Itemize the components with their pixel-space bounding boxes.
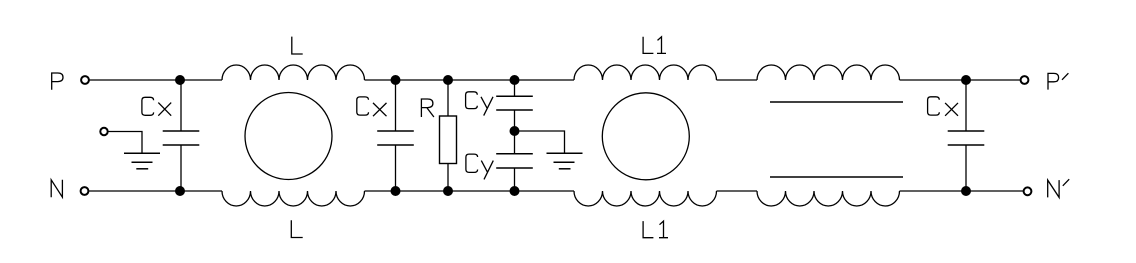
wire node B to L: [180, 190, 222, 192]
resistor R: [440, 80, 457, 191]
label Nprime: [1048, 179, 1070, 197]
choke L2 core bar bottom: [770, 176, 903, 178]
wire node H to L1: [515, 190, 575, 192]
ground right: [547, 153, 583, 169]
junction node A: [175, 75, 185, 85]
junction node E: [443, 75, 453, 85]
label R: [421, 99, 434, 117]
capacitor Cx1: [163, 80, 200, 191]
terminal N: [81, 187, 89, 195]
capacitor Cy1: [496, 80, 533, 131]
inductor L top winding: [222, 65, 365, 80]
wire L2 to node J: [900, 79, 967, 81]
wire L1 to L2 bottom: [717, 190, 758, 192]
terminal E ground: [100, 128, 107, 135]
wire node A to L: [180, 79, 222, 81]
ground left: [124, 153, 160, 169]
junction node F: [443, 186, 453, 196]
label Cx2: [357, 97, 387, 116]
inductor L1 bottom winding: [574, 191, 717, 206]
choke L core circle: [245, 93, 332, 180]
wire P to node A: [89, 79, 180, 81]
junction node M: [510, 126, 520, 136]
label L top: [292, 37, 303, 54]
wire node M to ground: [515, 131, 565, 153]
junction node G: [510, 75, 520, 85]
terminal Pprime: [1021, 76, 1029, 84]
inductor L bottom winding: [222, 191, 365, 206]
label Cy2: [466, 154, 493, 179]
junction node K: [961, 186, 971, 196]
capacitor Cx2: [377, 80, 414, 191]
wire node F to node H: [448, 190, 515, 192]
label L1 top: [643, 37, 666, 54]
junction node H: [510, 186, 520, 196]
wire N to node B: [89, 190, 180, 192]
wire node K to terminal Nprime: [966, 190, 1023, 192]
wire node C to node E: [396, 79, 449, 81]
label Cy1: [466, 92, 493, 116]
label N: [51, 180, 62, 197]
wire node E to node G: [448, 79, 515, 81]
inductor L1 top winding: [574, 65, 717, 80]
choke L1 core circle: [602, 93, 689, 180]
terminal Nprime: [1024, 187, 1032, 195]
label L1 bottom: [643, 221, 668, 238]
wire node D to node F: [396, 190, 449, 192]
wire node G to L1: [515, 79, 575, 81]
capacitor Cy2: [496, 131, 533, 191]
wire L1 to L2: [717, 79, 758, 81]
wire L2 to node K: [900, 190, 967, 192]
inductor L2 top winding: [757, 65, 900, 80]
label L bottom: [291, 220, 302, 237]
wire node J to terminal Pprime: [966, 79, 1021, 81]
junction node C: [391, 75, 401, 85]
wire terminal E to ground: [108, 132, 142, 153]
capacitor Cx3: [948, 80, 985, 191]
junction node D: [391, 186, 401, 196]
choke L2 core bar top: [770, 101, 903, 103]
label P: [52, 73, 63, 90]
label Pprime: [1048, 73, 1068, 89]
inductor L2 bottom winding: [757, 191, 900, 206]
label Cx1: [142, 97, 171, 115]
junction node J: [961, 75, 971, 85]
terminal P: [81, 76, 89, 84]
wire L to node C: [365, 79, 396, 81]
wire L to node D: [365, 190, 396, 192]
label Cx3: [928, 97, 958, 116]
junction node B: [175, 186, 185, 196]
